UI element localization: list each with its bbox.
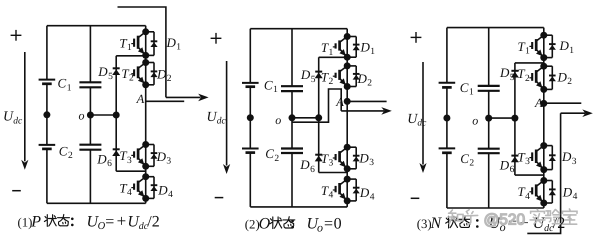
inner capacitor lower (circuit 3) xyxy=(478,149,500,208)
svg-text:4: 4 xyxy=(127,188,132,198)
clamp diode D5 (circuit 3) xyxy=(511,71,519,78)
svg-text:1: 1 xyxy=(329,48,334,58)
negative bus wire (circuit 1) xyxy=(47,202,146,204)
wire T2 emitter to node A (circuit 2) xyxy=(346,87,348,102)
svg-text:3: 3 xyxy=(329,159,334,169)
N-state output feed wire from negative side (circuit 3) xyxy=(527,113,560,233)
svg-text:2: 2 xyxy=(274,154,279,164)
transistor T4 (circuit 3) xyxy=(529,177,547,207)
output current arrow (circuit 1) xyxy=(166,94,209,102)
svg-text:A: A xyxy=(136,92,145,106)
diode D2 (circuit 1) xyxy=(146,63,158,85)
svg-text:D: D xyxy=(559,38,570,53)
svg-text:3: 3 xyxy=(525,157,530,167)
svg-text:2: 2 xyxy=(567,77,572,87)
wire T4 emitter to negative bus (circuit 1) xyxy=(145,198,147,203)
svg-text:2: 2 xyxy=(329,77,334,87)
Udc voltage annotation arrow (circuit 3) xyxy=(419,62,426,173)
svg-text:D: D xyxy=(357,71,368,86)
inner capacitor upper (circuit 1) xyxy=(79,26,101,145)
watermark zhihu glyph zhi xyxy=(448,210,463,224)
svg-text:5: 5 xyxy=(510,73,515,83)
wire bus corner to T1 collector (circuit 1) xyxy=(145,26,147,32)
positive bus wire (circuit 1) xyxy=(47,25,146,27)
svg-text:D: D xyxy=(358,151,369,166)
svg-text:C: C xyxy=(265,146,274,161)
svg-text:D: D xyxy=(360,40,371,55)
clamp branch upper wire (circuit 3) xyxy=(515,63,544,118)
D6 label (circuit 2) xyxy=(299,157,315,175)
svg-text:4: 4 xyxy=(168,190,173,200)
svg-text:(1): (1) xyxy=(18,215,33,229)
capacitor C1 (circuit 1) xyxy=(39,26,56,145)
svg-text:3: 3 xyxy=(127,156,132,166)
transistor T1 (circuit 2) xyxy=(333,33,351,61)
D3 label (circuit 3) xyxy=(561,149,577,167)
node A junction dot (circuit 3) xyxy=(540,100,547,107)
T1 label (circuit 1) xyxy=(119,36,132,54)
D2 label (circuit 1) xyxy=(156,67,172,85)
svg-text:D: D xyxy=(166,35,177,50)
capacitor C2 (circuit 2) xyxy=(242,149,259,207)
transistor T1 (circuit 3) xyxy=(529,32,547,61)
inner capacitor lower (circuit 1) xyxy=(79,145,101,204)
svg-text:3: 3 xyxy=(369,158,374,168)
svg-text:P: P xyxy=(30,213,41,230)
T4 label (circuit 3) xyxy=(518,184,531,202)
wire T1 emitter to T2 collector (circuit 2) xyxy=(346,57,348,66)
caption 3 colon xyxy=(476,219,479,228)
node o label (circuit 1) xyxy=(79,108,85,122)
D2 label (circuit 2) xyxy=(357,71,373,89)
capacitor C2 (circuit 3) xyxy=(439,148,456,208)
caption state O prefix xyxy=(245,216,271,233)
svg-text:D: D xyxy=(561,149,572,164)
C2 value label (circuit 1) xyxy=(59,143,73,161)
svg-text:D: D xyxy=(96,152,107,167)
wire bus corner to T1 collector (circuit 3) xyxy=(543,28,545,36)
caption 2 colon xyxy=(291,220,294,229)
P-state output feed wire from positive side (circuit 1) xyxy=(118,7,166,97)
positive bus wire (circuit 3) xyxy=(447,27,544,29)
output terminal stub from node A (circuit 2) xyxy=(347,100,386,102)
node A label (circuit 2) xyxy=(335,95,344,109)
svg-text:dc: dc xyxy=(13,116,23,126)
D5 label (circuit 2) xyxy=(300,67,316,85)
wire T1 emitter to T2 collector (circuit 3) xyxy=(543,58,545,67)
node o label (circuit 2) xyxy=(275,113,281,127)
C1 value label (circuit 1) xyxy=(58,76,72,94)
caption 1 colon xyxy=(71,218,74,227)
wire T1 emitter to T2 collector (circuit 1) xyxy=(145,55,147,62)
clamp leg node dot (circuit 3) xyxy=(511,115,518,122)
T2 label (circuit 2) xyxy=(321,70,334,88)
DC source minus terminal label (circuit 3) xyxy=(411,197,420,199)
caption 1 CJK zhuang xyxy=(44,215,56,227)
svg-text:1: 1 xyxy=(176,42,181,52)
watermark at-sign and number xyxy=(484,212,526,229)
D5 label (circuit 3) xyxy=(499,65,515,83)
svg-text:1: 1 xyxy=(370,47,375,57)
D1 label (circuit 3) xyxy=(559,38,575,56)
clamp branch upper wire (circuit 1) xyxy=(116,56,146,115)
clamp branch lower wire (circuit 1) xyxy=(116,115,146,171)
wire T3 emitter to T4 collector (circuit 3) xyxy=(543,170,545,181)
T1 label (circuit 3) xyxy=(518,39,531,57)
clamp diode D6 (circuit 2) xyxy=(315,155,323,162)
diode D2 (circuit 3) xyxy=(544,66,556,89)
svg-text:=: = xyxy=(105,213,114,230)
node A label (circuit 3) xyxy=(534,96,543,110)
wire node A to T3 collector (circuit 2) xyxy=(346,101,348,147)
node o junction dot (circuit 3) xyxy=(485,115,492,122)
output current arrow (circuit 3) xyxy=(561,109,593,117)
diode D2 (circuit 2) xyxy=(347,66,360,87)
caption state N prefix xyxy=(417,215,443,232)
svg-text:+: + xyxy=(117,211,127,230)
svg-text:1: 1 xyxy=(67,83,72,93)
T2 label (circuit 3) xyxy=(517,66,530,84)
svg-text:2: 2 xyxy=(367,79,372,89)
wire from node o to clamp diode leg (circuit 3) xyxy=(489,117,515,119)
caption 1 CJK tai xyxy=(58,215,70,226)
transistor T2 (circuit 2) xyxy=(333,62,351,90)
positive bus wire (circuit 2) xyxy=(250,28,347,30)
svg-text:C: C xyxy=(264,78,273,93)
svg-text:dc: dc xyxy=(217,117,227,127)
DC source minus terminal label (circuit 1) xyxy=(12,190,21,192)
svg-text:O: O xyxy=(259,216,271,233)
clamp leg node dot (circuit 1) xyxy=(113,112,120,119)
T4 label (circuit 1) xyxy=(119,180,132,198)
wire T4 emitter to negative bus (circuit 3) xyxy=(543,203,545,208)
T3 label (circuit 1) xyxy=(119,148,132,166)
svg-text:6: 6 xyxy=(107,159,112,169)
svg-text:/2: /2 xyxy=(147,213,159,230)
clamp diode D6 (circuit 1) xyxy=(112,149,120,156)
diode D4 (circuit 1) xyxy=(146,177,158,199)
svg-text:o: o xyxy=(79,108,85,122)
C2 value label (circuit 3) xyxy=(460,151,474,169)
caption state P prefix xyxy=(18,213,42,230)
svg-text:5: 5 xyxy=(311,75,316,85)
svg-text:D: D xyxy=(499,65,510,80)
D2 label (circuit 3) xyxy=(557,70,573,88)
Udc voltage annotation arrow (circuit 1) xyxy=(21,52,28,170)
transistor T4 (circuit 1) xyxy=(131,173,149,202)
C1 value label (circuit 2) xyxy=(264,78,278,96)
caption 2 CJK zhuang xyxy=(270,217,282,229)
inner capacitor upper (circuit 2) xyxy=(281,29,303,149)
svg-text:2: 2 xyxy=(167,74,172,84)
capacitor C2 (circuit 1) xyxy=(39,145,56,203)
D6 label (circuit 3) xyxy=(499,157,515,175)
D6 label (circuit 1) xyxy=(96,152,112,170)
D5 label (circuit 1) xyxy=(97,64,113,82)
clamp branch upper wire (circuit 2) xyxy=(319,57,348,118)
svg-text:4: 4 xyxy=(370,192,375,202)
caption 2 CJK tai xyxy=(283,217,295,228)
svg-text:(2): (2) xyxy=(245,218,260,232)
svg-text:3: 3 xyxy=(166,157,171,167)
svg-text:0: 0 xyxy=(334,216,342,233)
output current arrow (circuit 2) xyxy=(341,107,392,115)
Udc label (circuit 1) xyxy=(3,110,23,127)
svg-text:1: 1 xyxy=(469,88,474,98)
svg-text:4: 4 xyxy=(329,190,334,200)
svg-text:D: D xyxy=(562,185,573,200)
wire bus corner to T1 collector (circuit 2) xyxy=(346,29,348,37)
svg-text:D: D xyxy=(299,157,310,172)
caption 1 formula xyxy=(87,211,160,232)
svg-text:D: D xyxy=(157,182,168,197)
diode D1 (circuit 3) xyxy=(544,35,556,57)
negative bus wire (circuit 2) xyxy=(250,206,347,208)
capacitor C1 (circuit 2) xyxy=(242,29,259,149)
T3 label (circuit 2) xyxy=(321,151,334,169)
svg-text:4: 4 xyxy=(525,192,530,202)
Udc voltage annotation arrow (circuit 2) xyxy=(223,61,230,174)
D3 label (circuit 1) xyxy=(156,149,172,167)
capacitor string midpoint node (circuit 3) xyxy=(443,115,450,122)
svg-text:C: C xyxy=(58,76,67,91)
D1 label (circuit 1) xyxy=(166,35,182,53)
svg-text:o: o xyxy=(317,220,323,234)
inner capacitor lower (circuit 2) xyxy=(281,149,303,207)
svg-text:6: 6 xyxy=(510,165,515,175)
svg-text:D: D xyxy=(359,185,370,200)
DC source plus terminal label (circuit 3) xyxy=(411,32,422,43)
svg-text:D: D xyxy=(300,67,311,82)
watermark glyph shi (room) xyxy=(563,209,578,224)
svg-text:1: 1 xyxy=(569,46,574,56)
svg-text:=: = xyxy=(324,216,333,233)
diode D3 (circuit 1) xyxy=(146,145,158,167)
diode D4 (circuit 3) xyxy=(544,181,556,204)
clamp diode D5 (circuit 2) xyxy=(315,72,323,79)
DC source plus terminal label (circuit 2) xyxy=(211,33,222,44)
capacitor C1 (circuit 3) xyxy=(439,28,456,149)
svg-text:4: 4 xyxy=(573,192,578,202)
D1 label (circuit 2) xyxy=(360,40,376,58)
output terminal stub from node A (circuit 3) xyxy=(544,102,582,104)
diode D1 (circuit 2) xyxy=(347,37,360,58)
svg-text:1: 1 xyxy=(273,85,278,95)
C2 value label (circuit 2) xyxy=(265,146,279,164)
clamp diode D5 (circuit 1) xyxy=(112,68,120,75)
svg-text:C: C xyxy=(59,143,68,158)
watermark glyph shi (real) xyxy=(530,209,545,224)
T2 label (circuit 1) xyxy=(121,66,134,84)
transistor T4 (circuit 2) xyxy=(333,176,351,205)
negative bus wire (circuit 3) xyxy=(447,207,544,209)
svg-text:3: 3 xyxy=(572,157,577,167)
diode D3 (circuit 2) xyxy=(347,147,360,169)
node o junction dot (circuit 2) xyxy=(289,114,296,121)
D4 label (circuit 1) xyxy=(157,182,173,200)
clamp branch lower wire (circuit 2) xyxy=(319,118,348,173)
svg-text:(3): (3) xyxy=(417,217,432,231)
wire node A to T3 collector (circuit 3) xyxy=(543,103,545,145)
svg-text:D: D xyxy=(557,70,568,85)
transistor T3 (circuit 2) xyxy=(333,144,351,173)
svg-text:1: 1 xyxy=(525,47,530,57)
svg-text:o: o xyxy=(472,113,478,127)
svg-text:D: D xyxy=(97,64,108,79)
Udc label (circuit 3) xyxy=(407,112,427,129)
diode D3 (circuit 3) xyxy=(544,146,556,170)
svg-text:D: D xyxy=(499,157,510,172)
wire from node o to clamp diode leg (circuit 2) xyxy=(292,117,319,119)
clamp branch lower wire (circuit 3) xyxy=(515,118,544,175)
T1 label (circuit 2) xyxy=(321,40,334,58)
clamp leg node dot (circuit 2) xyxy=(315,114,322,121)
svg-text:o: o xyxy=(275,113,281,127)
output terminal stub from node A (circuit 1) xyxy=(146,100,185,102)
wire T4 emitter to negative bus (circuit 2) xyxy=(346,201,348,207)
svg-text:C: C xyxy=(460,151,469,166)
D4 label (circuit 2) xyxy=(359,185,375,203)
watermark glyph yan (test) xyxy=(545,210,560,224)
O-state output feed wire from node o (circuit 2) xyxy=(292,89,341,122)
node A junction dot (circuit 2) xyxy=(344,98,351,105)
clamp diode D6 (circuit 3) xyxy=(511,156,519,163)
svg-text:dc: dc xyxy=(417,119,427,129)
inner capacitor upper (circuit 3) xyxy=(478,28,500,149)
DC source minus terminal label (circuit 2) xyxy=(215,197,224,199)
T3 label (circuit 3) xyxy=(518,149,531,167)
wire from node o to clamp diode leg (circuit 1) xyxy=(90,114,116,116)
svg-text:C: C xyxy=(460,80,469,95)
caption 3 formula xyxy=(489,215,566,234)
transistor T2 (circuit 1) xyxy=(131,59,149,88)
node o junction dot (circuit 1) xyxy=(87,112,94,119)
caption 3 CJK tai xyxy=(459,216,471,227)
transistor T3 (circuit 1) xyxy=(131,141,149,170)
svg-text:2: 2 xyxy=(525,74,530,84)
svg-text:N: N xyxy=(430,215,443,232)
diode D1 (circuit 1) xyxy=(146,32,158,56)
diode D4 (circuit 2) xyxy=(347,179,360,201)
wire T2 emitter to node A (circuit 3) xyxy=(543,89,545,103)
T4 label (circuit 2) xyxy=(321,183,334,201)
svg-text:D: D xyxy=(156,149,167,164)
node o label (circuit 3) xyxy=(472,113,478,127)
svg-text:A: A xyxy=(335,95,344,109)
svg-text:2: 2 xyxy=(469,158,474,168)
svg-text:6: 6 xyxy=(310,165,315,175)
Udc label (circuit 2) xyxy=(207,110,227,127)
watermark zhihu glyph hu xyxy=(463,210,477,224)
caption 3 CJK zhuang xyxy=(446,216,458,228)
capacitor string midpoint node (circuit 2) xyxy=(247,114,254,121)
svg-text:1: 1 xyxy=(127,43,132,53)
transistor T1 (circuit 1) xyxy=(131,28,149,59)
DC source plus terminal label (circuit 1) xyxy=(11,30,22,41)
svg-text:2: 2 xyxy=(129,74,134,84)
wire T3 emitter to T4 collector (circuit 1) xyxy=(145,166,147,176)
wire T2 emitter to T3 collector through node A (circuit 1) xyxy=(145,85,147,145)
transistor T2 (circuit 3) xyxy=(529,63,547,93)
D4 label (circuit 3) xyxy=(562,185,578,203)
D3 label (circuit 2) xyxy=(358,151,374,169)
wire T3 emitter to T4 collector (circuit 2) xyxy=(346,169,348,179)
transistor T3 (circuit 3) xyxy=(529,142,547,173)
svg-text:@520: @520 xyxy=(484,212,526,229)
C1 value label (circuit 3) xyxy=(460,80,474,98)
svg-text:A: A xyxy=(534,96,543,110)
node A label (circuit 1) xyxy=(136,92,145,106)
svg-text:5: 5 xyxy=(108,72,113,82)
svg-text:2: 2 xyxy=(68,151,73,161)
capacitor string midpoint node (circuit 1) xyxy=(43,111,50,118)
caption 2 formula xyxy=(307,216,342,235)
